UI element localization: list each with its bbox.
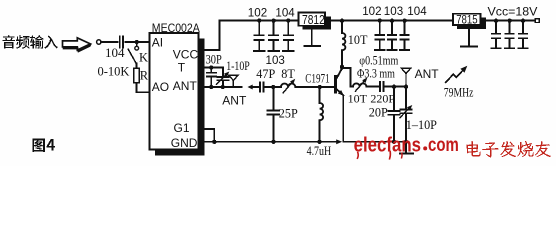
transistor emitter [336, 88, 343, 95]
svg-text:AO: AO [152, 80, 169, 94]
ground bar [400, 153, 413, 155]
wire ground rail [214, 141, 338, 143]
node ANT-30P [209, 85, 213, 89]
svg-text:elecfans: elecfans [354, 134, 421, 156]
capacitor 104 input [119, 36, 121, 47]
IC MEC002A box [150, 33, 199, 150]
svg-text:GND: GND [171, 136, 198, 150]
svg-text:Φ3.3 mm: Φ3.3 mm [357, 67, 395, 81]
svg-text:ANT: ANT [222, 93, 247, 107]
node trimmer rail [404, 140, 408, 144]
svg-text:103: 103 [384, 5, 403, 18]
transistor C1971 base bar [334, 76, 337, 91]
regulator 7812 box [299, 12, 326, 25]
svg-text:ANT: ANT [173, 79, 198, 93]
wire T pin [205, 67, 223, 69]
tuning zigzag arrow [446, 68, 465, 82]
7812 ground pin [311, 29, 313, 46]
svg-text:φ0.51mm: φ0.51mm [359, 53, 398, 67]
node collector [340, 65, 344, 69]
capacitor bank3 #1 [494, 18, 498, 22]
capacitor bank1 #3 [286, 18, 290, 22]
capacitor bank3 #3 [521, 18, 525, 22]
emitter rail arrow [336, 139, 342, 144]
svg-text:10T: 10T [348, 91, 368, 105]
svg-text:T: T [178, 61, 186, 75]
wire GND pin [205, 141, 215, 143]
node G1-GND [212, 140, 216, 144]
switch K contact [135, 46, 139, 50]
regulator 7815 shadow [457, 18, 486, 30]
regulator 7815 box [453, 14, 481, 25]
node T-30P [209, 65, 213, 69]
watermark com [428, 134, 459, 156]
wire 18V rail right [486, 20, 535, 22]
wire ANT pin [205, 86, 242, 88]
switch K blade [128, 49, 136, 63]
capacitor bank1 #2 [271, 18, 275, 22]
svg-text:1–10P: 1–10P [406, 118, 437, 132]
capacitor bank3 #2 [507, 18, 511, 22]
node 25P rail [271, 140, 275, 144]
capacitor 25P [272, 87, 274, 111]
node base junction [317, 85, 321, 89]
node rail-10T [340, 18, 344, 22]
svg-text:79MHz: 79MHz [444, 85, 474, 99]
inductor 4.7uH [319, 87, 321, 103]
capacitor bank1 #1 [257, 18, 261, 22]
wire input to C 104 [101, 41, 117, 43]
wire ground rail right [343, 141, 406, 143]
wire 10Tvar to 220P [366, 86, 380, 88]
node ANT-trimmer [221, 85, 225, 89]
capacitor 20P [393, 87, 395, 111]
svg-text:G1: G1 [174, 121, 190, 135]
watermark chinese 电子发烧友 [466, 141, 550, 157]
svg-text:K: K [139, 51, 148, 65]
capacitor bank2 #3 [402, 18, 406, 22]
wire 12V rail mid [331, 20, 453, 22]
svg-text:1-10P: 1-10P [226, 59, 250, 73]
wire R to AO [137, 83, 150, 93]
wire 12V rail left [220, 20, 299, 22]
svg-text:47P: 47P [256, 67, 275, 81]
node input junction [134, 40, 138, 44]
svg-text:104: 104 [407, 5, 427, 18]
watermark logo f-tail [389, 152, 392, 159]
wire C104 to AI [125, 41, 149, 43]
trimmer capacitor 1-10P [222, 68, 224, 77]
regulator 7812 shadow [303, 16, 331, 29]
input terminal [97, 40, 101, 44]
figure caption 图4 [32, 139, 55, 152]
capacitor bank2 #2 [390, 18, 394, 22]
wire 8T to base [295, 86, 334, 88]
transistor collector [336, 68, 342, 79]
capacitor 220P [379, 82, 381, 91]
svg-text:0-10K: 0-10K [98, 65, 130, 79]
7815 ground pin [468, 29, 470, 47]
input block arrow [63, 38, 91, 52]
watermark logo e-tail [357, 153, 360, 159]
variable inductor 8T [281, 84, 295, 87]
svg-text:7815: 7815 [456, 12, 478, 26]
node 20P tap [392, 84, 396, 88]
svg-text:Vcc=18V: Vcc=18V [488, 4, 539, 18]
svg-text:8T: 8T [281, 67, 295, 81]
svg-text:C1971: C1971 [305, 71, 329, 85]
antenna symbol right [402, 67, 411, 69]
arrow to antenna [248, 85, 253, 90]
wire collector to 10T var [342, 68, 353, 87]
inductor 10T vertical [341, 21, 343, 33]
antenna symbol left [229, 74, 238, 76]
node 25P tap [271, 85, 275, 89]
terminal Vcc square [535, 19, 539, 23]
node 20P rail [392, 140, 396, 144]
svg-text:104: 104 [275, 6, 295, 19]
wire VCC pin to rail [205, 21, 220, 50]
wire G1 pin [205, 129, 215, 142]
svg-text:AI: AI [152, 36, 163, 50]
svg-text:20P: 20P [369, 106, 388, 120]
watermark logo dot [423, 146, 427, 150]
wire 47P to node [265, 86, 281, 88]
svg-text:ANT: ANT [415, 67, 440, 81]
svg-text:102: 102 [362, 5, 381, 18]
capacitor bank2 #1 [378, 18, 382, 22]
svg-text:com: com [428, 134, 459, 156]
svg-text:R: R [140, 69, 149, 83]
variable inductor 10T [353, 83, 366, 86]
resistor R 0-10K [136, 64, 138, 69]
capacitor 30P [210, 68, 212, 73]
label audio input 音频输入 [2, 35, 57, 49]
svg-text:MEC002A: MEC002A [152, 21, 201, 35]
svg-text:VCC: VCC [173, 48, 199, 62]
svg-text:25P: 25P [279, 107, 298, 121]
svg-text:30P: 30P [206, 52, 222, 66]
wire 220P to node [385, 86, 406, 88]
svg-text:220P: 220P [370, 91, 395, 105]
svg-text:102: 102 [248, 6, 267, 19]
trimmer capacitor 1-10P out [405, 87, 407, 110]
svg-text:104: 104 [105, 45, 125, 60]
node ant2 tap [404, 84, 408, 88]
capacitor 47P [259, 82, 261, 91]
svg-text:10T: 10T [348, 33, 368, 47]
watermark elecfans logo [354, 134, 421, 156]
IC MEC002A shadow [155, 39, 205, 156]
svg-text:4.7uH: 4.7uH [307, 144, 332, 158]
svg-text:7812: 7812 [302, 13, 325, 27]
node 4.7uH rail [317, 140, 321, 144]
svg-text:103: 103 [266, 54, 285, 67]
